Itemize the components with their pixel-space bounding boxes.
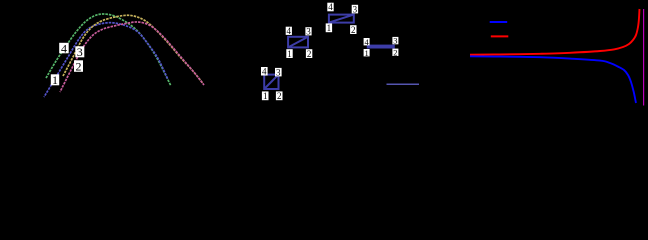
snapshot D node label 3: [392, 36, 398, 46]
snapshot C node label 3: [352, 4, 358, 14]
svg-text:4: 4: [262, 67, 267, 77]
snapshot B node label 2: [306, 49, 312, 59]
snapshot B node label 4: [286, 26, 292, 36]
svg-text:3: 3: [306, 27, 311, 37]
svg-text:4: 4: [328, 2, 333, 12]
middle panel legend line: [387, 83, 420, 85]
blue curve (diverging down): [470, 56, 636, 103]
svg-text:2: 2: [393, 47, 397, 57]
snapshot D node label 2: [392, 47, 398, 57]
graph snapshot A edges (square + diagonal): [264, 75, 278, 89]
svg-text:4: 4: [364, 37, 369, 47]
svg-text:2: 2: [307, 49, 312, 59]
svg-text:1: 1: [364, 48, 368, 58]
graph snapshot D edges (collapsed to horizontal bar): [367, 45, 395, 49]
snapshot A node label 3: [275, 67, 282, 77]
snapshot A node label 4: [261, 67, 268, 77]
curve label 1: [51, 73, 59, 87]
svg-text:1: 1: [52, 73, 58, 87]
snapshot D node label 1: [364, 48, 370, 58]
svg-text:1: 1: [327, 23, 332, 33]
snapshot C node label 1: [326, 23, 332, 33]
trajectory curve 2 (yellow, dotted): [63, 15, 203, 83]
snapshot C node label 2: [350, 25, 356, 35]
svg-text:3: 3: [393, 36, 397, 46]
snapshot B node label 3: [305, 27, 311, 37]
trajectory curve 4 (green, dotted): [46, 14, 171, 86]
snapshot D node label 4: [364, 37, 370, 47]
svg-text:1: 1: [263, 91, 268, 101]
snapshot B node label 1: [286, 49, 292, 59]
snapshot A node label 2: [276, 91, 283, 101]
svg-text:3: 3: [276, 67, 281, 77]
svg-text:2: 2: [351, 25, 356, 35]
vertical asymptote line (purple): [643, 9, 645, 106]
svg-text:2: 2: [277, 91, 282, 101]
graph snapshot B edges (rectangle + diagonal): [288, 37, 308, 48]
red curve (diverging up): [470, 9, 640, 55]
svg-text:4: 4: [61, 41, 67, 55]
svg-text:2: 2: [76, 59, 82, 73]
curve label 2: [74, 59, 83, 73]
curve label 4: [59, 41, 68, 55]
right panel legend blue line: [490, 21, 508, 23]
curve label 3: [75, 45, 84, 59]
trajectory curve 1 (magenta, dotted): [60, 22, 204, 92]
trajectory curve 3 (blue, dotted): [44, 23, 168, 97]
svg-text:4: 4: [287, 26, 292, 36]
right panel legend red line: [491, 35, 509, 37]
snapshot C node label 4: [327, 2, 333, 12]
svg-text:3: 3: [77, 45, 83, 59]
graph snapshot C edges (flat rectangle + diagonal): [329, 15, 354, 23]
svg-text:1: 1: [287, 49, 292, 59]
snapshot A node label 1: [262, 91, 269, 101]
svg-text:3: 3: [353, 4, 358, 14]
